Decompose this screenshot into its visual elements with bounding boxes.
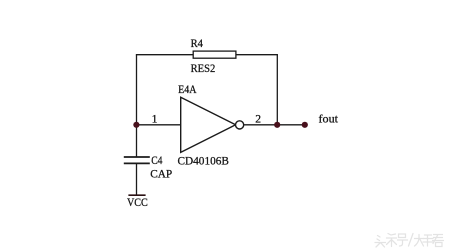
svg-text:CAP: CAP (150, 167, 172, 180)
wire top feedback left segment (136, 54, 193, 56)
wire input horizontal to inverter pin 1 (137, 124, 181, 126)
wire capacitor to VCC rail (136, 163, 138, 195)
wire top feedback right segment (236, 54, 278, 56)
wire left vertical (feedback to input node) (136, 55, 138, 157)
watermark glyph strokes (faint gray) (375, 234, 444, 248)
svg-text:C4: C4 (151, 154, 162, 167)
capacitor C4 top plate (124, 156, 150, 158)
inverter E4A triangle (181, 97, 236, 152)
svg-text:2: 2 (255, 112, 261, 125)
wire right vertical (feedback from output node) (276, 55, 278, 125)
svg-text:fout: fout (319, 113, 339, 126)
node terminal dot fout (302, 122, 308, 128)
node junction dot at output feedback tap (274, 122, 280, 128)
svg-text:RES2: RES2 (191, 62, 216, 75)
node junction dot at input (133, 122, 139, 128)
capacitor C4 bottom plate (124, 162, 150, 164)
svg-text:E4A: E4A (178, 83, 197, 96)
svg-text:1: 1 (152, 112, 158, 125)
svg-text:CD40106B: CD40106B (178, 155, 230, 168)
wire output horizontal (244, 124, 305, 126)
power rail VCC bar (128, 194, 145, 196)
svg-text:VCC: VCC (127, 196, 148, 209)
inverter output bubble (236, 121, 244, 129)
svg-text:R4: R4 (191, 37, 204, 50)
resistor R4 body (193, 51, 236, 58)
